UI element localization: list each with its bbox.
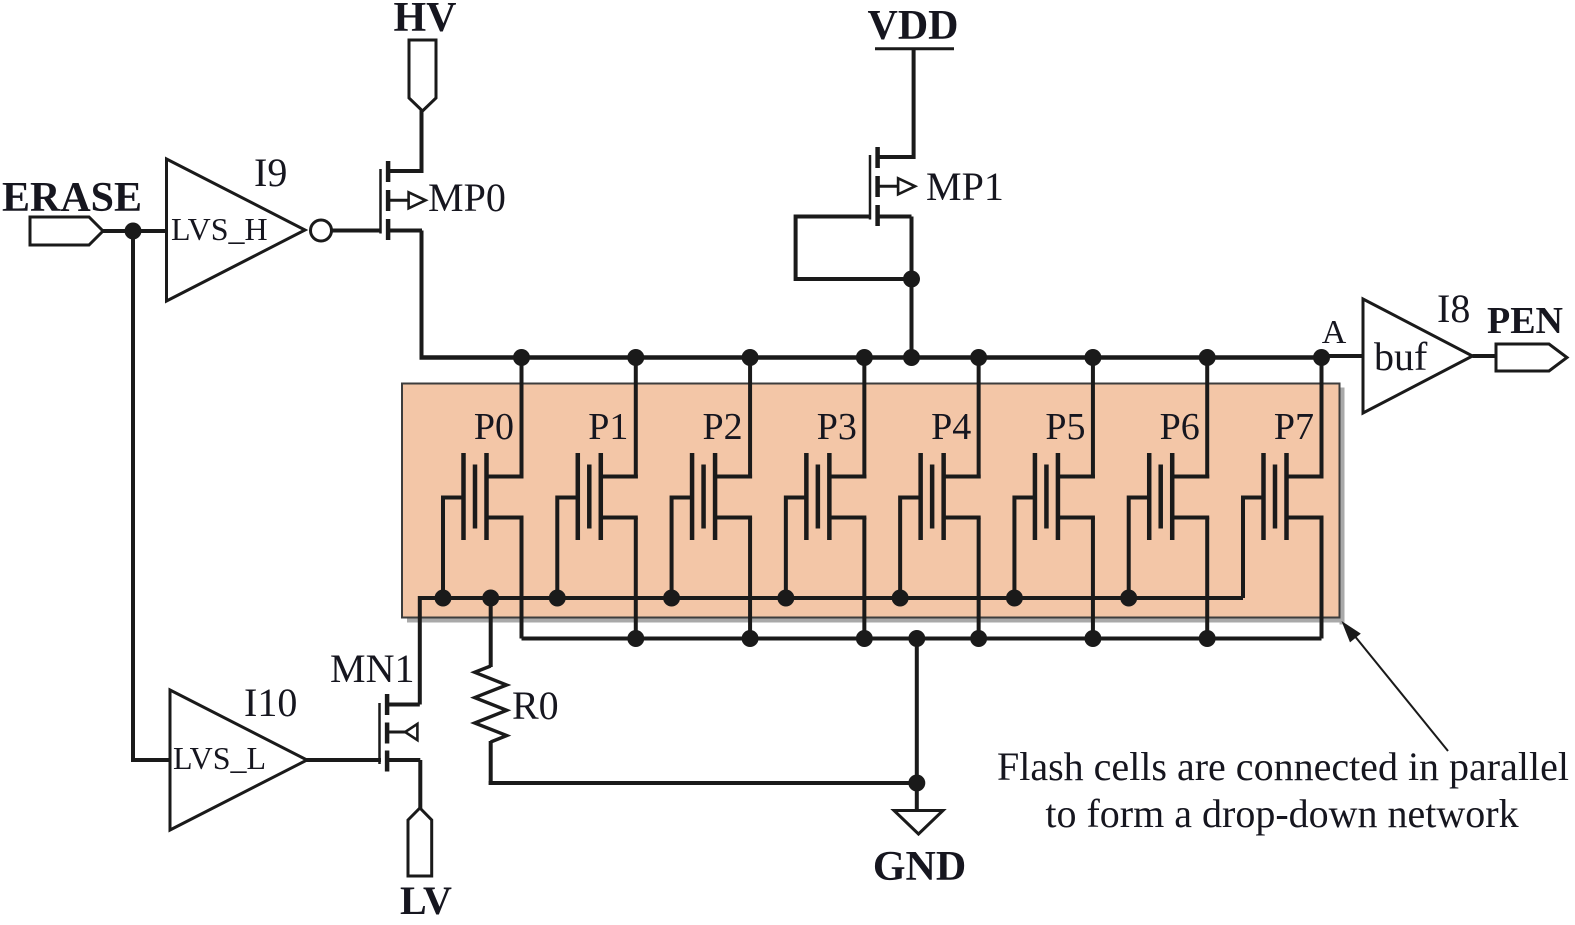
svg-text:to form a drop-down network: to form a drop-down network xyxy=(1045,791,1518,836)
svg-text:P5: P5 xyxy=(1045,406,1085,448)
svg-text:VDD: VDD xyxy=(868,3,959,49)
svg-text:P2: P2 xyxy=(703,406,743,448)
svg-text:P1: P1 xyxy=(588,406,628,448)
svg-text:P3: P3 xyxy=(817,406,857,448)
svg-text:P4: P4 xyxy=(931,406,971,448)
svg-text:LVS_L: LVS_L xyxy=(173,740,266,776)
svg-text:I10: I10 xyxy=(244,680,297,725)
svg-text:PEN: PEN xyxy=(1487,300,1563,342)
svg-text:Flash cells are connected in p: Flash cells are connected in parallel xyxy=(997,744,1569,789)
svg-text:MP1: MP1 xyxy=(926,164,1004,209)
svg-text:A: A xyxy=(1322,314,1347,351)
svg-text:MN1: MN1 xyxy=(330,646,414,691)
svg-text:I9: I9 xyxy=(254,150,287,195)
svg-text:P0: P0 xyxy=(474,406,514,448)
svg-text:LVS_H: LVS_H xyxy=(171,211,268,247)
svg-text:GND: GND xyxy=(873,844,966,890)
svg-text:LV: LV xyxy=(400,878,452,923)
svg-text:P7: P7 xyxy=(1274,406,1314,448)
svg-text:MP0: MP0 xyxy=(428,175,506,220)
svg-text:P6: P6 xyxy=(1160,406,1200,448)
svg-text:ERASE: ERASE xyxy=(2,175,142,221)
svg-text:I8: I8 xyxy=(1437,286,1470,331)
svg-text:HV: HV xyxy=(394,0,457,41)
svg-text:buf: buf xyxy=(1374,334,1428,379)
svg-text:R0: R0 xyxy=(512,683,559,728)
